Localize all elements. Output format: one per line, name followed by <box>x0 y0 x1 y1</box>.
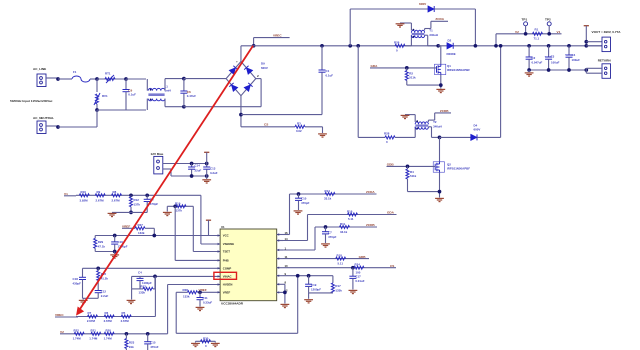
svg-text:133k: 133k <box>335 289 342 293</box>
svg-text:RT1: RT1 <box>105 72 111 76</box>
svg-text:VCC: VCC <box>223 234 229 238</box>
svg-text:R12: R12 <box>134 198 140 202</box>
svg-text:133k: 133k <box>138 231 145 235</box>
svg-text:47.1k: 47.1k <box>98 245 106 249</box>
svg-text:0.02: 0.02 <box>296 129 302 133</box>
svg-text:C11: C11 <box>203 296 209 300</box>
svg-text:ZCDA: ZCDA <box>366 190 375 194</box>
svg-text:2.67M: 2.67M <box>104 319 113 323</box>
svg-text:T1: T1 <box>429 29 433 33</box>
svg-text:33.1k: 33.1k <box>324 197 332 201</box>
svg-text:TSET: TSET <box>223 250 230 254</box>
svg-text:0.47uF: 0.47uF <box>187 94 196 98</box>
svg-text:C15: C15 <box>150 340 156 344</box>
svg-text:AC_NEUTRAL: AC_NEUTRAL <box>33 116 54 120</box>
svg-text:ZCDB: ZCDB <box>366 223 375 227</box>
svg-text:R8: R8 <box>113 190 117 194</box>
svg-text:V2: V2 <box>515 30 519 34</box>
svg-text:VREF: VREF <box>223 291 231 295</box>
svg-text:C1: C1 <box>326 69 330 73</box>
svg-text:RETURN: RETURN <box>598 59 612 63</box>
svg-text:GDA: GDA <box>387 211 395 215</box>
svg-text:0.047uF: 0.047uF <box>532 61 543 65</box>
svg-text:100uF: 100uF <box>551 61 560 65</box>
svg-text:1200pF: 1200pF <box>311 288 321 292</box>
svg-text:+: + <box>545 55 547 59</box>
svg-text:D2: D2 <box>448 39 452 43</box>
svg-text:GDB: GDB <box>387 162 395 166</box>
svg-text:VREC: VREC <box>273 34 282 38</box>
svg-text:IRFB11N50APBF: IRFB11N50APBF <box>447 68 470 72</box>
svg-text:600V: 600V <box>474 128 481 132</box>
svg-text:VREF: VREF <box>199 288 207 292</box>
svg-text:F1: F1 <box>73 70 77 74</box>
svg-text:340uH: 340uH <box>433 125 442 129</box>
svg-text:UCC28064ADR: UCC28064ADR <box>221 302 244 306</box>
svg-text:91k: 91k <box>129 345 134 349</box>
svg-text:C4: C4 <box>138 271 142 275</box>
svg-text:TP1: TP1 <box>522 18 528 22</box>
svg-text:2.67M: 2.67M <box>112 198 121 202</box>
svg-text:COMP: COMP <box>223 267 232 271</box>
svg-text:PHB: PHB <box>223 259 229 263</box>
svg-text:C2: C2 <box>532 56 536 60</box>
svg-text:VINAC: VINAC <box>223 275 232 279</box>
svg-text:ZCDB: ZCDB <box>440 109 449 113</box>
svg-text:C18: C18 <box>73 277 79 281</box>
svg-text:511k: 511k <box>409 76 416 80</box>
svg-text:50/60Hz Input 115Vac/240Vac: 50/60Hz Input 115Vac/240Vac <box>10 99 53 103</box>
svg-text:IRFB11N50APBF: IRFB11N50APBF <box>447 167 470 171</box>
svg-text:2.67M: 2.67M <box>87 319 96 323</box>
svg-text:VREC: VREC <box>55 313 64 317</box>
svg-text:R28: R28 <box>384 132 390 136</box>
svg-text:R10: R10 <box>81 190 87 194</box>
svg-text:1.74M: 1.74M <box>104 336 113 340</box>
svg-text:3.3uF: 3.3uF <box>210 171 218 175</box>
svg-text:R14: R14 <box>325 189 331 193</box>
svg-text:R17: R17 <box>335 284 341 288</box>
svg-text:12V Bias: 12V Bias <box>151 152 164 156</box>
svg-text:3.92M: 3.92M <box>80 198 89 202</box>
svg-text:C17: C17 <box>355 275 361 279</box>
svg-text:1.74M: 1.74M <box>89 336 98 340</box>
svg-text:5.11: 5.11 <box>338 261 344 265</box>
svg-text:600V: 600V <box>419 2 427 6</box>
svg-text:71.1: 71.1 <box>534 37 540 41</box>
svg-text:5.11: 5.11 <box>348 217 354 221</box>
svg-text:CS: CS <box>264 123 268 127</box>
svg-text:R22: R22 <box>74 328 80 332</box>
svg-text:0.1uF: 0.1uF <box>128 93 136 97</box>
svg-text:D9: D9 <box>261 62 265 66</box>
svg-text:2: 2 <box>257 74 259 78</box>
svg-text:R3: R3 <box>297 122 301 126</box>
svg-text:C13: C13 <box>210 167 216 171</box>
svg-text:R21: R21 <box>91 328 97 332</box>
svg-text:+: + <box>236 60 238 64</box>
svg-text:GDA: GDA <box>371 64 379 68</box>
svg-text:C10: C10 <box>301 197 307 201</box>
svg-text:430pF: 430pF <box>73 282 82 286</box>
svg-text:C4: C4 <box>572 53 576 57</box>
svg-text:ZCDA: ZCDA <box>435 17 444 21</box>
svg-text:133k: 133k <box>139 290 146 294</box>
svg-text:470pF: 470pF <box>301 201 310 205</box>
svg-text:C12: C12 <box>101 289 107 293</box>
svg-text:33.1k: 33.1k <box>340 230 348 234</box>
svg-text:R16: R16 <box>347 209 353 213</box>
svg-text:0.33uF: 0.33uF <box>203 301 212 305</box>
svg-text:0.01uF: 0.01uF <box>355 279 364 283</box>
svg-text:22uF: 22uF <box>195 169 202 173</box>
svg-text:2.67M: 2.67M <box>96 198 105 202</box>
svg-text:+: + <box>565 53 567 57</box>
svg-text:DIODE: DIODE <box>447 52 456 56</box>
svg-text:470pF: 470pF <box>328 235 337 239</box>
svg-text:137k: 137k <box>176 209 183 213</box>
svg-text:AC_LINE: AC_LINE <box>33 67 46 71</box>
svg-text:2.67M: 2.67M <box>121 319 130 323</box>
svg-text:137k: 137k <box>134 203 141 207</box>
svg-text:C19: C19 <box>311 283 317 287</box>
svg-text:600V: 600V <box>261 66 268 70</box>
svg-text:2.2uF: 2.2uF <box>101 294 109 298</box>
svg-text:R27: R27 <box>138 223 144 227</box>
svg-text:C3: C3 <box>551 55 555 59</box>
svg-text:R29: R29 <box>98 240 104 244</box>
svg-text:C14: C14 <box>195 164 201 168</box>
svg-text:1.74M: 1.74M <box>73 336 82 340</box>
svg-text:HVSEN: HVSEN <box>223 283 233 287</box>
svg-text:T2: T2 <box>433 120 437 124</box>
svg-text:U1: U1 <box>221 225 225 229</box>
svg-text:CS: CS <box>390 264 394 268</box>
svg-text:VOUT = 390V, 0.77A: VOUT = 390V, 0.77A <box>592 30 622 34</box>
svg-text:C7: C7 <box>328 230 332 234</box>
svg-text:0.1uF: 0.1uF <box>326 74 334 78</box>
svg-text:511k: 511k <box>410 174 417 178</box>
svg-text:133k: 133k <box>183 294 190 298</box>
svg-text:V1: V1 <box>557 30 561 34</box>
svg-text:R23: R23 <box>129 340 135 344</box>
svg-text:100uF: 100uF <box>572 58 581 62</box>
svg-text:R28: R28 <box>183 288 189 292</box>
svg-text:GDB: GDB <box>359 255 367 259</box>
svg-text:R1: R1 <box>535 28 539 32</box>
svg-text:470nF: 470nF <box>150 345 159 349</box>
svg-text:VSENSE: VSENSE <box>223 242 234 246</box>
svg-text:TP2: TP2 <box>545 18 551 22</box>
svg-text:340uH: 340uH <box>429 33 438 37</box>
svg-text:RV1: RV1 <box>102 94 108 98</box>
